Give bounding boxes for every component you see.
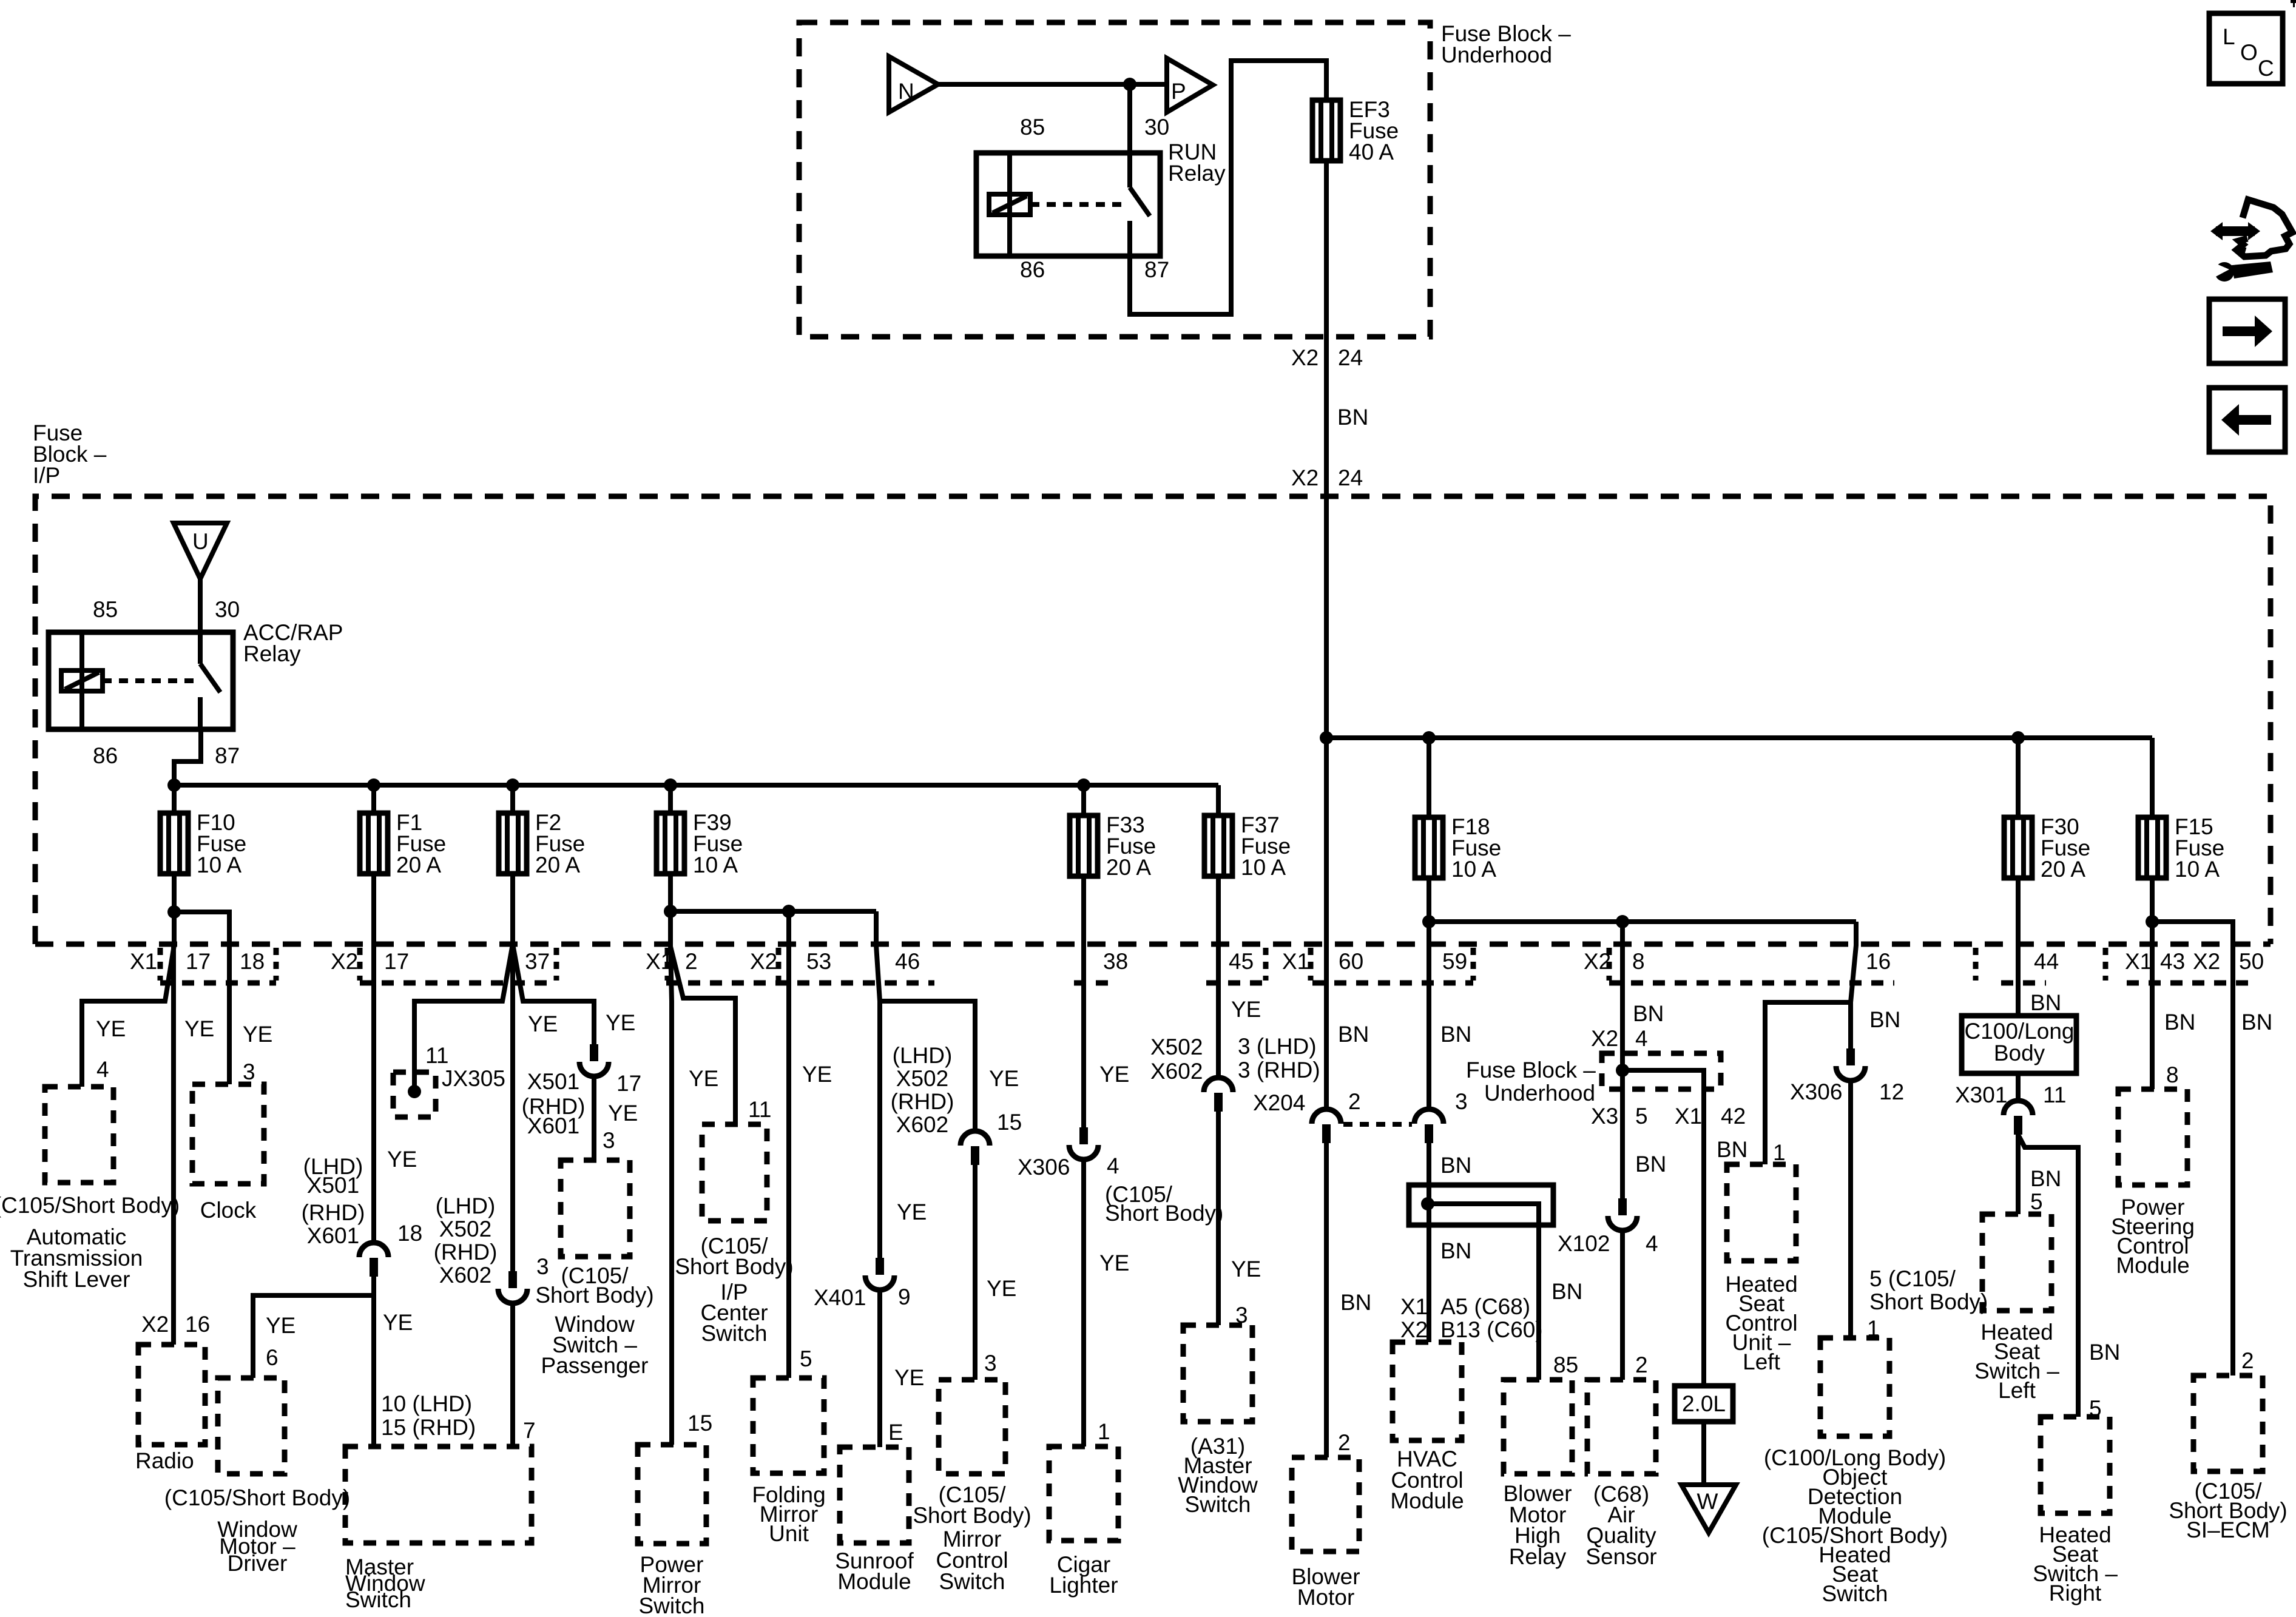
fuse F15 xyxy=(2138,814,2224,882)
svg-text:Module: Module xyxy=(2116,1253,2189,1278)
svg-text:SI–ECM: SI–ECM xyxy=(2186,1517,2270,1542)
wire pin 46 to Sunroof Module xyxy=(876,911,880,1258)
junction xyxy=(506,778,519,792)
svg-text:A5 (C68): A5 (C68) xyxy=(1440,1294,1530,1319)
svg-text:X1: X1 xyxy=(130,949,157,974)
svg-text:6: 6 xyxy=(266,1345,279,1370)
wire F1 down xyxy=(371,874,376,1241)
svg-text:X1: X1 xyxy=(2125,949,2152,974)
svg-text:BN: BN xyxy=(1551,1279,1582,1304)
svg-text:B13 (C60): B13 (C60) xyxy=(1440,1317,1543,1342)
svg-text:Body: Body xyxy=(1994,1041,2045,1065)
svg-text:16: 16 xyxy=(185,1312,210,1337)
svg-text:YE: YE xyxy=(897,1200,927,1224)
svg-text:X501: X501 xyxy=(307,1173,359,1198)
junction under F15 xyxy=(2146,915,2159,928)
svg-text:Lighter: Lighter xyxy=(1049,1573,1118,1598)
wire to A31 Master Window Switch xyxy=(1216,1112,1221,1325)
component Folding Mirror Unit xyxy=(753,1378,824,1473)
junction under F39 xyxy=(664,905,677,918)
wire xyxy=(172,874,177,912)
svg-text:2: 2 xyxy=(1338,1430,1351,1455)
junction xyxy=(1077,778,1090,792)
component Heated Seat Switch Left xyxy=(1982,1214,2051,1311)
svg-text:3: 3 xyxy=(603,1128,615,1153)
wire to Cigar Lighter xyxy=(1081,1160,1086,1447)
wire to HVAC xyxy=(1427,922,1431,1108)
left bus xyxy=(174,783,1218,788)
junction xyxy=(2011,731,2025,744)
svg-text:X2: X2 xyxy=(1591,1026,1618,1051)
svg-text:59: 59 xyxy=(1442,949,1467,974)
wire to Window Switch Passenger xyxy=(513,944,594,1044)
junction xyxy=(367,778,380,792)
svg-text:(RHD): (RHD) xyxy=(434,1240,498,1264)
junction JX305 dot xyxy=(408,1085,421,1098)
junction xyxy=(782,905,795,918)
svg-text:5 (C105/: 5 (C105/ xyxy=(1869,1266,1956,1291)
svg-text:5: 5 xyxy=(800,1346,812,1371)
junction xyxy=(1123,78,1136,91)
wire branch to Mirror Control Switch xyxy=(880,1001,975,1130)
svg-text:BN: BN xyxy=(1635,1152,1666,1176)
svg-text:U: U xyxy=(192,529,209,554)
svg-text:Switch: Switch xyxy=(639,1593,705,1617)
connector pin 3 xyxy=(1414,1109,1443,1143)
svg-text:Switch: Switch xyxy=(1185,1492,1251,1517)
wire xyxy=(592,1076,596,1160)
svg-text:X602: X602 xyxy=(896,1112,948,1137)
svg-text:YE: YE xyxy=(987,1276,1016,1301)
connector X502/X602 pin 15 xyxy=(961,1131,990,1165)
junction in splice xyxy=(1421,1197,1434,1210)
svg-text:Short Body): Short Body) xyxy=(535,1283,653,1308)
svg-text:3 (RHD): 3 (RHD) xyxy=(1238,1058,1320,1082)
svg-text:X2: X2 xyxy=(750,949,777,974)
svg-text:Underhood: Underhood xyxy=(1441,42,1552,67)
connector X501/X601 pin 18 xyxy=(359,1243,388,1277)
wire to JX305 xyxy=(414,944,513,1087)
connector separator xyxy=(2103,948,2109,981)
connector separator xyxy=(274,948,279,981)
junction under F10 xyxy=(167,905,181,919)
svg-text:BN: BN xyxy=(2030,1166,2061,1191)
svg-text:2.0L: 2.0L xyxy=(1682,1391,1726,1416)
svg-text:YE: YE xyxy=(689,1066,718,1091)
wire xyxy=(877,1290,882,1447)
svg-text:24: 24 xyxy=(1338,345,1363,370)
wire to Object Detection Module xyxy=(1848,1081,1853,1338)
svg-text:38: 38 xyxy=(1103,949,1128,974)
svg-text:E: E xyxy=(888,1420,903,1445)
svg-text:YE: YE xyxy=(387,1147,417,1172)
svg-text:10 A: 10 A xyxy=(197,852,241,877)
wire pin 2 to IP Center Switch xyxy=(670,911,735,1124)
wire xyxy=(2016,1073,2021,1099)
svg-text:X2: X2 xyxy=(1291,465,1319,490)
svg-text:(LHD): (LHD) xyxy=(893,1043,953,1068)
svg-text:Relay: Relay xyxy=(1168,161,1226,186)
connector C100/Long Body xyxy=(1962,1016,2076,1073)
svg-text:44: 44 xyxy=(2034,949,2059,974)
svg-text:2: 2 xyxy=(1348,1089,1361,1114)
fuse EF3 xyxy=(1312,97,1399,164)
svg-text:YE: YE xyxy=(528,1011,558,1036)
right bus xyxy=(1326,735,2152,740)
wire branch to SI-ECM xyxy=(2152,922,2233,1376)
svg-text:3: 3 xyxy=(536,1254,549,1279)
component Power Mirror Switch xyxy=(638,1445,706,1544)
component Air Quality Sensor xyxy=(1587,1380,1656,1474)
wire branch to Heated Seat Control Unit xyxy=(1765,1002,1851,1164)
svg-text:10 A: 10 A xyxy=(1451,857,1496,882)
wire to Power Steering Control Module xyxy=(2150,922,2155,1089)
wire xyxy=(2150,738,2155,817)
svg-text:30: 30 xyxy=(215,597,240,622)
svg-text:53: 53 xyxy=(806,949,831,974)
page mark top right xyxy=(2291,0,2296,3)
svg-text:87: 87 xyxy=(215,743,240,768)
svg-text:Left: Left xyxy=(1743,1349,1780,1374)
wire branch right xyxy=(670,909,876,914)
wire xyxy=(1427,738,1431,817)
svg-text:Short Body): Short Body) xyxy=(913,1503,1031,1528)
svg-text:YE: YE xyxy=(1099,1251,1129,1275)
svg-text:3: 3 xyxy=(243,1059,255,1084)
junction xyxy=(167,778,181,792)
connector strip bottom xyxy=(160,981,276,986)
junction under F18 xyxy=(1422,915,1436,928)
svg-text:8: 8 xyxy=(2166,1062,2179,1087)
svg-text:Left: Left xyxy=(1998,1378,2036,1403)
svg-text:X2: X2 xyxy=(1400,1317,1428,1342)
fuse F39 xyxy=(657,810,743,877)
svg-text:24: 24 xyxy=(1338,465,1363,490)
svg-text:15 (RHD): 15 (RHD) xyxy=(381,1415,476,1440)
svg-text:O: O xyxy=(2240,40,2258,65)
svg-text:8: 8 xyxy=(1632,949,1645,974)
svg-text:JX305: JX305 xyxy=(442,1066,505,1091)
connector separator xyxy=(1308,948,1314,981)
svg-text:2: 2 xyxy=(2241,1348,2254,1373)
svg-text:2: 2 xyxy=(685,949,698,974)
wire to Power Mirror Switch xyxy=(670,947,672,1445)
fuse block underhood boundary xyxy=(799,22,1430,337)
connector separator xyxy=(665,948,670,981)
connector strip bottom xyxy=(1206,981,1267,986)
node P xyxy=(1167,58,1213,112)
svg-text:3: 3 xyxy=(1455,1089,1468,1114)
fuse F30 xyxy=(2004,814,2090,882)
wire xyxy=(1081,785,1086,815)
wire branch to Blower Motor High Relay xyxy=(1428,1204,1539,1380)
ground W xyxy=(1681,1485,1736,1533)
wire EF3 to right bus xyxy=(1324,161,1329,738)
fuse F33 xyxy=(1070,812,1156,880)
svg-text:17: 17 xyxy=(384,949,409,974)
component A31 Master Window Switch xyxy=(1183,1325,1252,1422)
svg-text:Fuse Block –: Fuse Block – xyxy=(1466,1058,1596,1082)
component Automatic Transmission Shift Lever xyxy=(45,1087,113,1183)
wire to shift lever pin 17 xyxy=(82,912,174,1087)
fuse F2 xyxy=(499,810,585,877)
svg-text:X601: X601 xyxy=(307,1223,359,1248)
svg-text:4: 4 xyxy=(1646,1231,1658,1256)
connector X306 pin 4 xyxy=(1069,1127,1098,1160)
svg-text:9: 9 xyxy=(898,1284,911,1309)
connector strip bottom xyxy=(666,981,934,986)
svg-text:X502: X502 xyxy=(439,1217,491,1241)
svg-text:Passenger: Passenger xyxy=(541,1353,649,1378)
svg-text:Switch: Switch xyxy=(701,1321,768,1346)
svg-text:4: 4 xyxy=(1107,1153,1119,1178)
svg-text:20 A: 20 A xyxy=(2041,857,2085,882)
wire to Blower Motor xyxy=(1324,738,1329,1108)
svg-text:42: 42 xyxy=(1721,1104,1746,1129)
svg-text:Relay: Relay xyxy=(1509,1544,1567,1569)
junction JX305 xyxy=(393,1072,436,1117)
svg-text:X501: X501 xyxy=(527,1069,579,1094)
connector separator xyxy=(1263,948,1269,981)
svg-text:X601: X601 xyxy=(527,1113,579,1138)
svg-text:10 (LHD): 10 (LHD) xyxy=(381,1391,472,1416)
svg-text:Switch: Switch xyxy=(1822,1581,1888,1606)
svg-text:30: 30 xyxy=(1144,115,1169,140)
svg-text:45: 45 xyxy=(1229,949,1254,974)
svg-text:X306: X306 xyxy=(1790,1079,1842,1104)
svg-text:Short Body): Short Body) xyxy=(1869,1289,1988,1314)
svg-text:4: 4 xyxy=(1635,1026,1648,1051)
svg-text:(LHD): (LHD) xyxy=(436,1193,496,1218)
svg-text:15: 15 xyxy=(687,1411,712,1436)
icon arrow right box xyxy=(2209,299,2285,363)
svg-text:20 A: 20 A xyxy=(396,852,441,877)
svg-text:N: N xyxy=(898,79,914,104)
wire F2 down xyxy=(510,874,515,943)
svg-text:(RHD): (RHD) xyxy=(891,1089,954,1114)
svg-text:(C105/Short Body): (C105/Short Body) xyxy=(164,1485,350,1510)
fuse F10 xyxy=(160,810,246,877)
svg-text:C: C xyxy=(2258,56,2274,81)
junction xyxy=(1616,915,1629,928)
wire xyxy=(1324,1143,1329,1457)
svg-text:X2: X2 xyxy=(141,1312,169,1337)
wire to Heated Seat Switch Left xyxy=(2016,1135,2021,1214)
svg-text:C100/Long: C100/Long xyxy=(1964,1019,2074,1044)
svg-text:BN: BN xyxy=(1440,1022,1471,1047)
svg-text:15: 15 xyxy=(997,1110,1022,1135)
component Object Detection Module xyxy=(1820,1338,1889,1436)
svg-text:X204: X204 xyxy=(1253,1090,1305,1115)
icon arrow left box xyxy=(2209,388,2285,452)
connector strip top (IP block bottom) xyxy=(35,942,2271,947)
component Blower Motor High Relay xyxy=(1504,1380,1572,1474)
connector separator xyxy=(357,948,363,981)
svg-text:W: W xyxy=(1697,1489,1718,1514)
wire ACC relay 87 to left bus xyxy=(174,729,201,785)
svg-text:Unit: Unit xyxy=(769,1521,809,1546)
svg-text:X3: X3 xyxy=(1591,1104,1618,1129)
svg-text:X2: X2 xyxy=(2193,949,2220,974)
svg-text:Switch: Switch xyxy=(939,1569,1005,1594)
svg-text:BN: BN xyxy=(1633,1001,1664,1026)
wire xyxy=(2150,878,2155,922)
svg-text:L: L xyxy=(2223,24,2235,49)
svg-text:87: 87 xyxy=(1144,257,1169,282)
svg-text:BN: BN xyxy=(2030,990,2061,1015)
dashed connector link X204 xyxy=(1343,1122,1412,1127)
svg-text:X1: X1 xyxy=(1675,1104,1702,1129)
svg-text:BN: BN xyxy=(2089,1340,2120,1365)
svg-text:1: 1 xyxy=(1773,1140,1786,1165)
svg-text:40 A: 40 A xyxy=(1349,140,1394,164)
svg-text:X502: X502 xyxy=(896,1066,948,1091)
svg-text:43: 43 xyxy=(2160,949,2185,974)
wire to Folding Mirror Unit xyxy=(786,911,791,1378)
wire to Master Window Switch pin 7 xyxy=(510,1303,515,1447)
icon adjustable hand with wrench xyxy=(2210,200,2292,282)
svg-text:86: 86 xyxy=(1020,257,1045,282)
svg-text:10 A: 10 A xyxy=(2175,857,2220,882)
svg-text:18: 18 xyxy=(240,949,265,974)
connector X501/X601 pin 17 xyxy=(579,1044,609,1076)
wire xyxy=(371,785,376,813)
svg-text:X401: X401 xyxy=(814,1285,866,1310)
component Blower Motor xyxy=(1292,1457,1359,1551)
node N xyxy=(889,56,938,112)
svg-text:X1: X1 xyxy=(1400,1294,1428,1319)
svg-text:YE: YE xyxy=(266,1313,295,1338)
component Cigar Lighter xyxy=(1049,1447,1118,1541)
relay RUN xyxy=(976,153,1160,256)
svg-text:4: 4 xyxy=(96,1057,109,1082)
svg-text:YE: YE xyxy=(243,1022,272,1047)
svg-text:YE: YE xyxy=(96,1016,126,1041)
junction xyxy=(1422,731,1436,744)
engine 2.0L box xyxy=(1675,1386,1733,1422)
svg-text:37: 37 xyxy=(525,949,550,974)
wire to Clock pin 18 xyxy=(174,912,229,1084)
svg-text:YE: YE xyxy=(1231,1257,1261,1281)
junction xyxy=(664,778,677,792)
svg-text:YE: YE xyxy=(184,1016,214,1041)
component SI-ECM xyxy=(2193,1376,2263,1471)
component HVAC Control Module xyxy=(1393,1342,1462,1440)
svg-text:85: 85 xyxy=(1553,1352,1578,1377)
svg-text:BN: BN xyxy=(2164,1010,2195,1035)
svg-text:P: P xyxy=(1171,79,1186,104)
connector X102 pin 4 xyxy=(1608,1198,1637,1230)
svg-text:Underhood: Underhood xyxy=(1484,1081,1595,1106)
connector strip bottom xyxy=(2001,981,2046,986)
connector X401 pin 9 xyxy=(865,1258,894,1290)
svg-text:Relay: Relay xyxy=(243,641,301,666)
svg-text:BN: BN xyxy=(1337,405,1368,430)
svg-text:Short Body): Short Body) xyxy=(675,1254,793,1279)
component Sunroof Module xyxy=(840,1447,909,1543)
svg-text:18: 18 xyxy=(397,1221,422,1246)
wire xyxy=(973,1165,977,1380)
svg-text:BN: BN xyxy=(1717,1137,1747,1162)
svg-text:BN: BN xyxy=(1440,1153,1471,1178)
connector strip bottom xyxy=(1074,981,1115,986)
svg-text:BN: BN xyxy=(1440,1238,1471,1263)
wire to Radio xyxy=(171,945,176,1345)
wire xyxy=(2016,738,2021,817)
component Radio xyxy=(138,1345,205,1445)
wire F37 down xyxy=(1216,876,1221,1076)
wire branch to Heated Seat Switch Right xyxy=(2019,1136,2078,1417)
wire xyxy=(1216,785,1221,815)
svg-text:X2: X2 xyxy=(331,949,358,974)
wire branch to 2.0L xyxy=(1622,1070,1704,1386)
svg-text:Switch: Switch xyxy=(345,1587,411,1612)
wire pin 16 down xyxy=(1851,922,1856,1048)
wire RUN relay 87 to EF3 xyxy=(1130,61,1326,314)
fuse block underhood inner xyxy=(1602,1053,1721,1089)
svg-text:YE: YE xyxy=(608,1101,638,1126)
wire U to ACC relay xyxy=(198,579,203,632)
svg-text:X602: X602 xyxy=(439,1263,491,1288)
svg-text:YE: YE xyxy=(1231,997,1261,1022)
svg-text:X602: X602 xyxy=(1150,1059,1203,1084)
svg-text:X2: X2 xyxy=(1291,345,1319,370)
fuse block IP boundary xyxy=(35,496,2271,944)
svg-text:Radio: Radio xyxy=(135,1448,194,1473)
svg-text:85: 85 xyxy=(1020,115,1045,140)
fuse F18 xyxy=(1415,814,1501,882)
connector strip bottom xyxy=(1312,981,1473,986)
power tap U xyxy=(174,523,227,579)
svg-text:X102: X102 xyxy=(1558,1231,1610,1256)
svg-text:YE: YE xyxy=(383,1310,413,1335)
svg-text:Shift Lever: Shift Lever xyxy=(23,1267,130,1292)
wire N to P xyxy=(938,82,1167,87)
svg-text:3: 3 xyxy=(984,1351,997,1376)
wire to HVAC Control Module xyxy=(1427,1143,1431,1342)
svg-text:Driver: Driver xyxy=(228,1551,288,1576)
svg-text:11: 11 xyxy=(425,1043,448,1068)
svg-text:BN: BN xyxy=(2241,1010,2272,1035)
connector separator xyxy=(776,948,782,981)
wire xyxy=(668,874,673,911)
wire F33 down xyxy=(1081,876,1086,1127)
svg-text:BN: BN xyxy=(1869,1007,1900,1032)
svg-text:2: 2 xyxy=(1635,1352,1648,1377)
icon LOC box xyxy=(2209,13,2283,84)
wire xyxy=(668,785,673,813)
svg-text:Module: Module xyxy=(837,1569,911,1594)
wire xyxy=(1427,878,1431,922)
svg-text:5: 5 xyxy=(2030,1189,2043,1214)
wire to Air Quality Sensor xyxy=(1620,1230,1625,1380)
svg-text:16: 16 xyxy=(1866,949,1891,974)
connector strip bottom xyxy=(1609,981,1894,986)
svg-text:20 A: 20 A xyxy=(1106,855,1151,880)
svg-text:7: 7 xyxy=(523,1418,536,1443)
svg-text:Short Body): Short Body) xyxy=(1105,1201,1223,1226)
svg-text:86: 86 xyxy=(93,743,118,768)
svg-text:Motor: Motor xyxy=(1297,1585,1355,1610)
component Heated Seat Switch Right xyxy=(2041,1417,2110,1513)
svg-text:Module: Module xyxy=(1390,1488,1464,1513)
connector X306 pin 12 xyxy=(1836,1048,1865,1081)
svg-text:X1: X1 xyxy=(1282,949,1309,974)
connector X502/X602 pin 3 xyxy=(498,1271,527,1303)
connector separator xyxy=(1607,948,1612,981)
svg-text:Clock: Clock xyxy=(200,1198,257,1223)
connector separator xyxy=(158,948,163,981)
